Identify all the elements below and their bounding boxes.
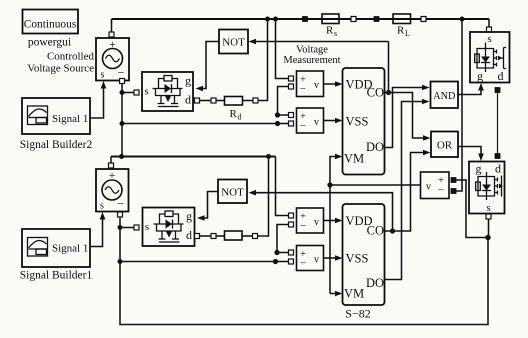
node Q1 d port [495,88,500,93]
node v2 - port [289,121,294,126]
node Q2 d port [495,154,500,159]
svg-text:d: d [238,113,242,122]
MOSFET subsystem U1 [142,72,193,111]
node v5 - port [451,189,456,194]
node arrow into AND in2 [422,99,430,105]
node arrow into VM2 [335,291,343,297]
wire [216,235,225,237]
node port Rd left [211,98,216,103]
node arrow into OR in2 [423,150,431,156]
wire v4 out to VSS2 [324,257,338,259]
wire v3 minus down to v4 plus [277,225,289,253]
wire [216,100,225,102]
node v4 + port [289,250,294,255]
node MOSFET1 s port [134,90,139,95]
node arrow into U2 g [197,215,205,221]
svg-text:v: v [314,117,319,128]
svg-text:Measurement: Measurement [283,55,340,66]
node junction rail1 x462 [460,17,464,21]
svg-text:Voltage: Voltage [296,45,328,56]
voltage measurement v1 [297,71,324,97]
wire DO2 to AND in2 [385,102,425,280]
signal builder SB2 [22,98,90,134]
svg-text:L: L [405,29,410,38]
logical operator NOT1 [219,30,248,54]
svg-text:S−82: S−82 [345,307,370,321]
svg-text:g: g [476,162,482,176]
node CVS1 plus port [109,32,114,37]
node junction v1-/v2+ [275,113,279,117]
node port Rd right [253,98,258,103]
svg-text:NOT: NOT [221,187,244,199]
wire rail2 down to CVS2 plus [110,157,112,164]
svg-text:−: − [300,258,306,270]
wire v5 minus riser to rail1 [456,19,462,191]
node port Rs right [351,17,356,22]
svg-text:OR: OR [437,140,453,152]
svg-text:v: v [314,80,319,91]
node port RL right [421,17,426,22]
wire CVS1 minus to v2 minus [122,123,278,125]
svg-text:s: s [145,221,149,233]
node junction v-right output [328,183,332,187]
svg-text:R: R [326,25,334,37]
wire [243,100,254,102]
svg-text:v: v [314,217,319,228]
wire DO1 to AND in1 [385,88,425,148]
node port Rd2 right [253,234,258,239]
svg-text:Voltage Source: Voltage Source [27,63,94,75]
voltage measurement v2 [297,108,324,133]
wire CO1 output [385,93,426,139]
svg-text:s: s [100,201,104,212]
node v2 + port [289,113,294,118]
node junction x122 y92 [120,90,124,94]
svg-text:v: v [426,182,431,193]
logical operator NOT2 [218,180,247,204]
wire U1 d to Rd [200,100,212,102]
node junction CO1 [386,90,390,94]
node arrow into U1 g [196,86,204,92]
node junction x120 y261 [118,259,122,263]
wire CO1 to NOT1 input [254,41,389,43]
wire v5 output to VM junction [330,184,421,186]
wire rail1 to v1 plus [276,19,289,79]
node arrow into NOT2 [249,190,257,196]
node port Rs left [303,17,308,22]
svg-text:v: v [314,255,319,266]
svg-text:VM: VM [344,287,364,301]
svg-text:AND: AND [433,90,455,102]
svg-text:Controlled: Controlled [47,51,95,63]
svg-text:DO: DO [366,276,384,290]
wire CO2 to OR in2 [393,153,426,232]
svg-text:g: g [186,209,192,223]
wire CVS2 minus to v4 minus [120,261,276,263]
logical operator OR [431,132,458,158]
wire U2 d to Rd2 [200,235,212,237]
svg-text:VSS: VSS [346,115,369,129]
node junction rail2 x268 [266,154,270,158]
node Q2 s port [486,214,491,219]
wire rail2 mid supply [111,156,276,158]
wire CVS1 + up to rail1 [111,19,113,32]
svg-text:d: d [498,69,504,83]
wire v3 out to VDD2 [324,220,338,222]
node junction y261 to v4 minus [273,259,277,263]
node MOSFET3 s port [487,27,492,32]
voltage measurement v5 (output sense) [421,172,450,199]
wire [242,235,253,237]
svg-text:CO: CO [367,224,384,238]
node junction y123 to v2 minus [275,121,279,125]
svg-text:g: g [477,69,483,83]
controlled voltage source CVS1 [96,38,129,81]
wire CVS1 minus down to rail2 [121,84,123,157]
node junction x122 y123 [120,121,124,125]
S-function block U4 (bottom driver) [343,204,385,305]
svg-text:−: − [117,197,124,211]
wire AND output to MOSFET3 g [458,88,481,95]
wire rail1 top supply [112,18,490,20]
node MOSFET2 s port [134,225,139,230]
voltage measurement v4 [297,246,324,271]
node arrow into CVS2 s [100,212,106,220]
logical operator AND [431,82,459,109]
resistor Rd2 [225,231,243,240]
node arrow into NOT1 [249,39,257,45]
signal builder SB1 [22,229,90,267]
svg-text:g: g [185,74,191,88]
wire SB2 output to CVS1 s input [90,87,104,118]
svg-text:Continuous: Continuous [24,17,77,31]
wire VM feed riser [330,157,337,294]
powergui block (Continuous) [23,10,79,34]
svg-text:CO: CO [367,86,384,100]
node junction rail1 x275 [273,17,277,21]
MOSFET block Q2 (bottom right) [469,162,505,215]
node arrow into VDD2 [335,218,343,224]
svg-text:Signal Builder2: Signal Builder2 [20,139,93,151]
controlled voltage source CVS2 [96,169,129,212]
wire Q1 d to Q2 d [497,93,499,154]
svg-text:−: − [300,120,306,132]
svg-text:−: − [300,83,306,95]
svg-text:R: R [397,25,405,37]
svg-text:−: − [300,220,306,232]
node arrow into VM1 [335,154,343,160]
node v1 + port [289,76,294,81]
node arrow into OR in1 [423,135,431,141]
node CVS2 minus port [118,212,123,217]
wire v2 out to VSS1 [324,120,338,122]
svg-text:DO: DO [366,140,384,154]
wire v1 minus down to v2 plus [278,87,289,116]
resistor Rd [225,97,243,122]
wire rail1 end down to MOSFET3 s port [488,19,490,27]
node arrow into AND in1 [422,85,430,91]
svg-text:s: s [101,70,105,81]
svg-text:VM: VM [344,152,364,166]
node v1 - port [289,84,294,89]
wire NOT2 output to U2 gate [203,192,218,219]
wire SB1 output to CVS2 s input [90,218,103,247]
node CVS2 plus port [109,163,114,168]
node v4 - port [289,259,294,264]
resistor Rs [322,14,339,38]
svg-text:VSS: VSS [346,252,369,266]
svg-text:s: s [144,86,148,98]
wire VM2 feed [330,293,337,295]
node v3 + port [289,213,294,218]
node arrow into VDD1 [335,81,343,87]
node U1 d port [195,98,200,103]
svg-text:d: d [495,162,501,176]
svg-text:−: − [118,66,125,80]
node junction v3-/v4+ [275,250,279,254]
svg-text:powergui: powergui [28,37,71,49]
svg-text:d: d [185,93,191,107]
wire Q2 s down to return [488,219,490,238]
svg-text:NOT: NOT [222,37,245,49]
wire to MOSFET2 s [120,227,134,229]
node v5 + port [451,178,456,183]
svg-text:R: R [230,108,238,120]
wire Rd up to rail1 [258,19,268,101]
wire Rd2 up to rail2 [258,157,269,237]
voltage measurement v3 [297,208,324,233]
S-function block U3 (top driver) [343,68,385,175]
wire to MOSFET1 s [122,92,134,94]
node junction rail2 x121 [119,154,123,158]
wire CO2 output riser to NOT2 [254,193,393,231]
svg-text:s: s [487,33,491,45]
wire to v2 minus [278,123,289,125]
MOSFET block Q1 (top right) [470,32,510,83]
node v3 - port [289,222,294,227]
node junction rail1 x267 [265,17,269,21]
svg-text:s: s [334,29,337,38]
node arrow into CVS1 s [101,81,107,89]
svg-text:d: d [186,228,192,242]
node U2 d port [195,234,200,239]
node junction s return [486,235,491,240]
wire rail2 to v3 plus [276,157,289,216]
wire CO1 riser [388,42,390,93]
node junction x120 y227 [118,225,122,229]
wire OR output to MOSFET4 g [458,147,481,157]
svg-text:Signal 1: Signal 1 [52,113,88,125]
node arrow up into MOSFET3 g [478,83,484,91]
wire to v4 minus [276,261,289,263]
wire v5 plus to s return [456,180,486,238]
svg-text:−: − [438,185,444,197]
svg-text:s: s [486,202,490,214]
node port Rd2 left [211,234,216,239]
node junction CO2 [390,229,394,233]
wire CVS2 minus down and bottom return [120,217,488,325]
node arrow into VSS2 [335,255,343,261]
node arrow down into MOSFET4 g [478,154,484,162]
node port RL left [374,17,379,22]
svg-text:Signal 1: Signal 1 [52,243,88,255]
node CVS1 minus port [120,79,125,84]
wire v1 out to VDD1 [324,83,338,85]
wire NOT1 output to U1 gate [202,42,220,89]
resistor RL [393,14,411,38]
MOSFET subsystem U2 [143,208,195,247]
node arrow into VSS1 [335,118,343,124]
svg-text:Signal Builder1: Signal Builder1 [20,270,93,282]
